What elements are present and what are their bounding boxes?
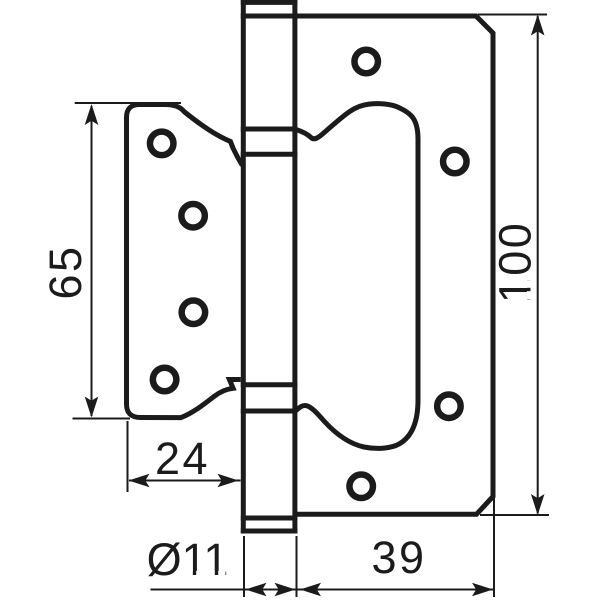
arrow 100 up [531,15,545,36]
extension line 100 top [478,14,547,16]
right leaf cutout edge [296,104,418,449]
svg-text:65: 65 [40,244,91,299]
screw hole left leaf 4 [153,368,177,392]
arrow 65 up [85,104,99,125]
arrow 39 left [300,583,321,597]
extension line 39 right [493,497,495,597]
arrow d11 left [246,583,267,597]
screw hole left leaf 2 [181,204,205,228]
barrel bottom cap line [241,516,298,521]
extension line 24 left [127,421,129,492]
dimension line 65 [91,106,93,416]
arrow 65 down [85,397,99,418]
screw hole right leaf 2 [443,150,467,174]
extension line 65 bottom [73,418,131,420]
extension line barrel left below [243,536,245,597]
arrow 24 right [218,474,239,488]
extension line barrel right below [296,536,298,597]
dimension line 24 [129,480,241,482]
barrel top cap line [241,14,298,19]
dimension line bottom [151,589,494,591]
barrel right edge [292,0,297,534]
barrel knuckle line 1 [241,127,298,132]
svg-text:39: 39 [371,532,426,583]
barrel left edge [241,0,246,534]
svg-text:24: 24 [155,433,210,484]
svg-text:100: 100 [490,221,541,304]
arrow 24 left [129,474,150,488]
extension line 65 top [75,102,181,104]
screw hole right leaf 1 [354,50,378,74]
serif masks for digit 1 (DIN-style stems) [185,281,532,577]
left leaf outline [127,105,243,418]
arrow d11 right [275,583,296,597]
svg-text:Ø11: Ø11 [147,534,229,585]
screw hole right leaf 3 [437,394,461,418]
barrel bottom edge [241,529,298,534]
dimension line 100 [537,16,539,514]
arrow 39 right [472,583,493,597]
right leaf outline [295,16,493,514]
barrel top edge [241,0,298,5]
extension line 100 bottom [480,514,549,516]
screw hole right leaf 4 [349,475,373,499]
barrel knuckle line 4 [241,409,298,414]
barrel knuckle line 3 [241,382,298,387]
barrel knuckle line 2 [241,152,298,157]
arrow 100 down [531,494,545,515]
screw hole left leaf 1 [150,132,174,156]
screw hole left leaf 3 [182,301,206,325]
